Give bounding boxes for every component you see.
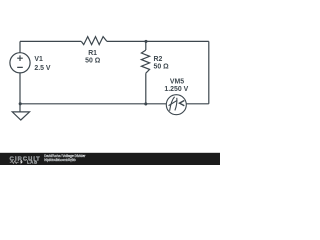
- wire top rail right segment: [107, 40, 209, 42]
- svg-text:VM5: VM5: [170, 78, 184, 85]
- svg-text:1.250 V: 1.250 V: [164, 86, 188, 93]
- node junction R2 top: [144, 40, 147, 43]
- wire bottom rail left segment: [20, 103, 166, 105]
- wire R2 bottom lead: [145, 73, 147, 104]
- svg-text:LAB: LAB: [27, 160, 38, 165]
- wire V1 bottom lead: [19, 73, 21, 104]
- wire right side: [208, 41, 210, 103]
- svg-text:R1: R1: [88, 50, 97, 57]
- wire R2 top lead: [145, 41, 147, 50]
- svg-text:2.5 V: 2.5 V: [34, 65, 50, 72]
- CircuitLab logo: lightning bolt: [20, 160, 23, 165]
- footer bar: [0, 153, 220, 165]
- ground: [12, 112, 29, 120]
- svg-text:R2: R2: [154, 56, 163, 63]
- node junction R2 bottom: [144, 102, 147, 105]
- wire bottom rail right segment: [186, 103, 209, 105]
- resistor R1: [81, 37, 107, 45]
- voltage source V1: [10, 53, 30, 73]
- wire V1 top lead: [19, 41, 21, 52]
- svg-text:50 Ω: 50 Ω: [154, 64, 170, 71]
- resistor R2: [141, 50, 149, 73]
- wire ground stub: [19, 104, 21, 112]
- CircuitLab logo: resistor squiggle: [10, 161, 19, 164]
- svg-text:50 Ω: 50 Ω: [85, 57, 101, 64]
- wire top rail left segment: [20, 40, 81, 42]
- node junction left (V1/ground): [19, 102, 22, 105]
- svg-text:http://circuitlab.com/c5q4kb: http://circuitlab.com/c5q4kb: [44, 158, 76, 162]
- voltmeter VM5: [166, 95, 186, 115]
- svg-text:V1: V1: [34, 56, 43, 63]
